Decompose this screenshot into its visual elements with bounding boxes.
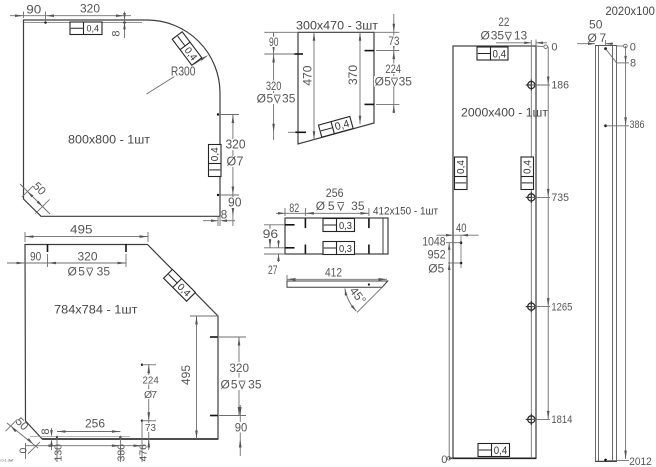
svg-text:8: 8 xyxy=(40,428,52,434)
svg-text:0: 0 xyxy=(551,42,557,54)
svg-text:0,3: 0,3 xyxy=(339,243,352,255)
svg-text:0,4: 0,4 xyxy=(210,147,221,161)
svg-text:256: 256 xyxy=(85,417,105,431)
svg-text:8: 8 xyxy=(111,30,123,36)
svg-text:370: 370 xyxy=(346,65,360,85)
svg-text:73: 73 xyxy=(389,34,400,48)
svg-text:27: 27 xyxy=(268,263,278,277)
svg-text:22: 22 xyxy=(498,15,509,29)
svg-text:5: 5 xyxy=(267,92,274,106)
svg-text:90: 90 xyxy=(235,421,248,435)
svg-text:7: 7 xyxy=(237,155,244,169)
svg-text:320: 320 xyxy=(80,2,100,16)
svg-text:2012: 2012 xyxy=(629,456,651,467)
svg-text:13: 13 xyxy=(514,29,528,43)
svg-text:90: 90 xyxy=(26,2,41,16)
svg-text:2020x100: 2020x100 xyxy=(605,4,655,18)
svg-text:386: 386 xyxy=(116,444,128,462)
svg-text:73: 73 xyxy=(145,422,156,434)
svg-text:90: 90 xyxy=(30,249,42,263)
svg-text:Ø: Ø xyxy=(221,378,230,392)
svg-text:412x150 - 1шт: 412x150 - 1шт xyxy=(373,206,438,218)
svg-text:7: 7 xyxy=(151,389,157,401)
svg-text:0,3: 0,3 xyxy=(339,220,352,232)
svg-text:8: 8 xyxy=(630,57,636,69)
svg-text:2000x400 - 1шт: 2000x400 - 1шт xyxy=(461,106,549,120)
svg-text:35: 35 xyxy=(248,378,262,392)
svg-text:320: 320 xyxy=(78,250,98,264)
svg-text:Ø: Ø xyxy=(375,75,384,89)
svg-text:Ø5: Ø5 xyxy=(428,262,444,276)
svg-text:35: 35 xyxy=(399,75,413,89)
svg-text:8: 8 xyxy=(221,207,228,221)
svg-text:0,4: 0,4 xyxy=(494,445,508,457)
svg-text:50: 50 xyxy=(589,17,603,31)
svg-text:224: 224 xyxy=(143,375,159,387)
svg-text:0: 0 xyxy=(630,42,636,54)
svg-text:35: 35 xyxy=(97,265,111,279)
svg-text:1265: 1265 xyxy=(551,301,572,313)
svg-text:130: 130 xyxy=(53,444,65,462)
svg-text:495: 495 xyxy=(70,223,93,237)
svg-text:Ø: Ø xyxy=(257,92,266,106)
svg-text:R300: R300 xyxy=(171,65,196,79)
svg-text:495: 495 xyxy=(179,365,193,385)
svg-text:0,4: 0,4 xyxy=(87,24,100,35)
svg-text:952: 952 xyxy=(428,248,446,262)
svg-text:0,4: 0,4 xyxy=(456,160,467,174)
svg-text:82: 82 xyxy=(289,203,299,215)
svg-text:412: 412 xyxy=(325,265,342,279)
svg-text:470: 470 xyxy=(301,65,315,85)
svg-text:256: 256 xyxy=(326,186,344,200)
svg-text:0: 0 xyxy=(441,454,447,466)
svg-text:Ø: Ø xyxy=(481,29,490,43)
svg-text:386: 386 xyxy=(630,119,645,131)
svg-text:0,4: 0,4 xyxy=(493,48,507,60)
svg-text:0,4: 0,4 xyxy=(523,160,534,174)
svg-text:35: 35 xyxy=(351,199,365,213)
svg-text:800x800 - 1шт: 800x800 - 1шт xyxy=(68,133,151,147)
svg-text:5: 5 xyxy=(328,199,335,213)
svg-text:Ø: Ø xyxy=(316,199,325,213)
svg-text:90: 90 xyxy=(228,196,242,210)
svg-text:5: 5 xyxy=(78,265,85,279)
svg-text:35: 35 xyxy=(282,92,296,106)
svg-text:35: 35 xyxy=(491,29,505,43)
svg-text:784x784 - 1шт: 784x784 - 1шт xyxy=(54,303,138,317)
svg-text:186: 186 xyxy=(551,80,569,92)
svg-text:0: 0 xyxy=(18,448,30,454)
svg-text:ro-1.dwf: ro-1.dwf xyxy=(1,459,14,463)
svg-text:Ø: Ø xyxy=(68,265,77,279)
svg-text:Ø: Ø xyxy=(227,155,237,169)
svg-text:320: 320 xyxy=(229,361,249,375)
svg-text:90: 90 xyxy=(269,35,279,49)
svg-text:40: 40 xyxy=(456,221,467,235)
svg-text:5: 5 xyxy=(384,75,391,89)
svg-text:96: 96 xyxy=(263,227,279,241)
svg-text:5: 5 xyxy=(231,378,238,392)
svg-text:735: 735 xyxy=(551,192,569,204)
svg-text:320: 320 xyxy=(226,138,246,152)
svg-text:476: 476 xyxy=(137,444,149,462)
svg-text:1814: 1814 xyxy=(551,414,572,426)
svg-text:300x470 - 3шт: 300x470 - 3шт xyxy=(296,19,379,33)
